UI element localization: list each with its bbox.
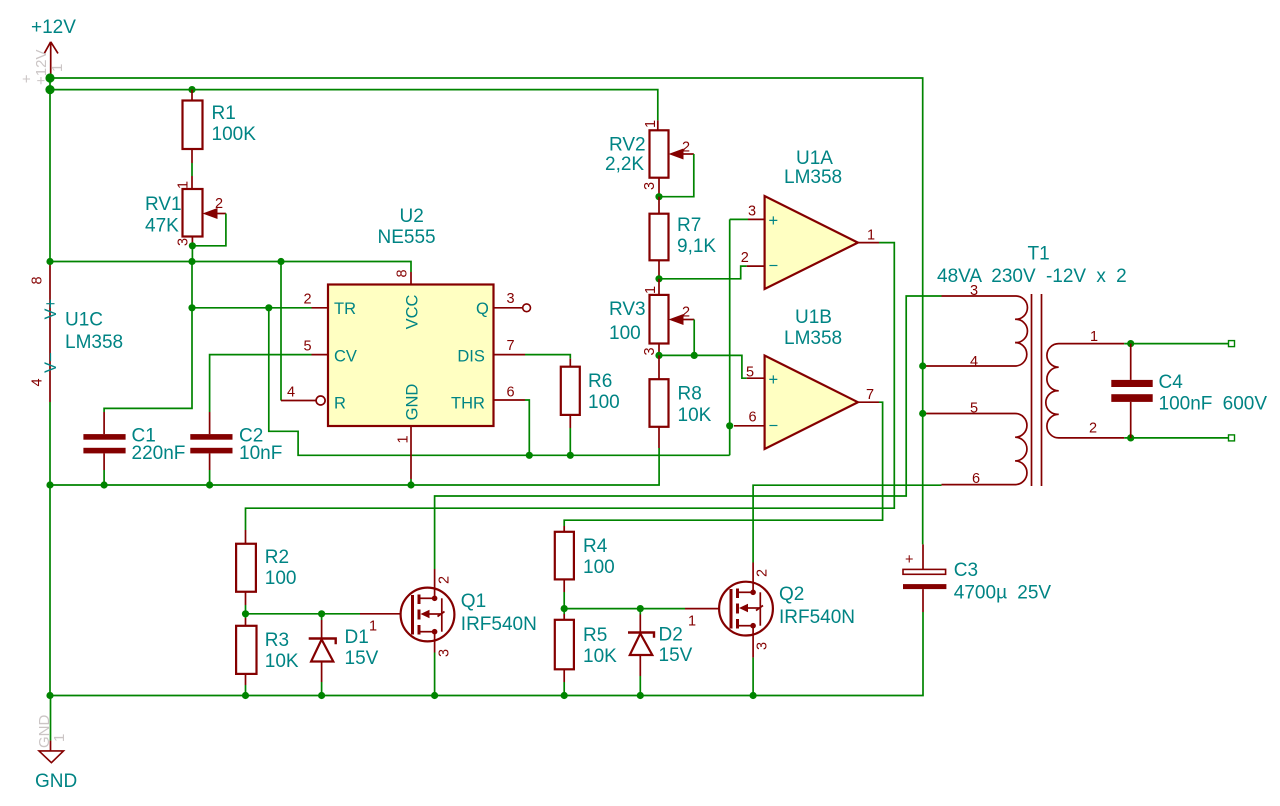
svg-text:4: 4: [30, 378, 46, 386]
junction bottom bus R5: [561, 692, 568, 699]
wire U1A output to Q1 gate resistor R2: [246, 243, 895, 530]
resistor R8: [650, 355, 712, 448]
svg-text:R2: R2: [265, 547, 289, 568]
svg-text:Q2: Q2: [779, 584, 804, 605]
svg-text:R3: R3: [265, 630, 289, 651]
wire VCC bus to U2 pin 8: [50, 262, 411, 273]
pin 8 VCC of U2: [395, 269, 422, 329]
svg-text:100nF 600V: 100nF 600V: [1159, 394, 1268, 415]
pin 2 of U1A: [741, 250, 765, 266]
svg-text:V−: V−: [42, 352, 60, 373]
svg-text:100: 100: [588, 392, 620, 413]
wire R3 top stub: [245, 614, 247, 618]
svg-text:V+: V+: [42, 299, 60, 320]
junction TR wire x192: [188, 304, 195, 311]
svg-text:1: 1: [369, 619, 377, 635]
wire RV3 node to U1B pin 5: [659, 355, 747, 378]
svg-text:U1A: U1A: [796, 148, 833, 169]
wire R6 bottom to bus: [569, 428, 571, 455]
svg-text:6: 6: [507, 385, 515, 401]
junction RV1 pin3: [189, 242, 196, 249]
svg-text:RV3: RV3: [609, 299, 646, 320]
wire T1 pin1 to output terminal: [1124, 343, 1229, 345]
svg-text:10nF: 10nF: [239, 443, 282, 464]
svg-text:9,1K: 9,1K: [677, 236, 716, 257]
wire D1 bottom to bus: [321, 682, 323, 696]
resistor R4: [555, 526, 615, 592]
wire x192 down to C1 top: [104, 308, 192, 412]
svg-text:220nF: 220nF: [132, 443, 186, 464]
wire TR net horizontal: [192, 307, 312, 309]
svg-text:1: 1: [1090, 329, 1098, 345]
svg-text:DIS: DIS: [457, 348, 485, 366]
svg-text:GND: GND: [35, 771, 77, 792]
capacitor C2: [190, 412, 282, 470]
svg-text:100: 100: [583, 557, 615, 578]
wire vertical pin3-pin6 column: [729, 219, 731, 455]
svg-text:100: 100: [609, 323, 641, 344]
svg-text:R6: R6: [588, 371, 612, 392]
pin 4 R of U2 with inversion circle: [281, 385, 346, 413]
wire R2 bottom to gate node: [245, 605, 247, 614]
svg-text:CV: CV: [334, 348, 357, 366]
svg-text:+12V: +12V: [31, 17, 76, 38]
wire R4 bottom to gate node: [563, 592, 565, 609]
junction RV2 pin3: [655, 193, 662, 200]
pin 6 THR of U2: [451, 385, 525, 413]
pin 7 output of U1B: [858, 387, 879, 403]
junction T1 pin5 on +12V column: [919, 410, 926, 417]
svg-text:7: 7: [866, 387, 874, 403]
wire Q1 source to bus: [434, 653, 436, 696]
ground symbol GND: [35, 696, 77, 793]
wire T1 pin5 stub: [923, 413, 926, 415]
wire Q2 gate net: [564, 608, 685, 610]
T1 primary coil A pins 3-4: [926, 283, 1027, 370]
wire R5 bottom to bus: [563, 682, 565, 696]
svg-text:Q1: Q1: [461, 591, 486, 612]
junction R1 top on rail2: [188, 86, 195, 93]
wire U2 GND pin to bus: [410, 479, 412, 485]
svg-text:TR: TR: [334, 300, 356, 318]
svg-text:3: 3: [642, 182, 658, 190]
junction bottom bus left rail: [46, 692, 53, 699]
svg-text:3: 3: [437, 649, 453, 657]
svg-text:RV2: RV2: [609, 135, 646, 156]
svg-text:R7: R7: [677, 215, 701, 236]
junction TR wire x268.8: [265, 304, 272, 311]
junction R2/R3 gate node: [242, 610, 249, 617]
pin 6 of U1B: [734, 410, 765, 426]
svg-text:2: 2: [741, 250, 749, 266]
terminal output node 1: [1229, 341, 1235, 347]
svg-text:+: +: [769, 212, 779, 230]
wire Q2 drain up to T1 pin6: [753, 485, 941, 562]
svg-text:4700µ 25V: 4700µ 25V: [954, 583, 1052, 604]
power flag +12V: [22, 17, 76, 88]
wire RV2 wiper to pin 3: [659, 154, 694, 197]
wire Q1 gate net: [246, 613, 361, 615]
wire R5 top stub: [563, 609, 565, 614]
pin 2 TR of U2: [304, 292, 357, 319]
svg-text:U1C: U1C: [65, 310, 103, 331]
svg-text:8: 8: [30, 276, 46, 284]
pin 5 of U1B: [746, 365, 765, 381]
svg-text:IRF540N: IRF540N: [779, 607, 855, 628]
pin 7 DIS of U2: [457, 338, 525, 366]
pin 3 of U1A: [748, 204, 765, 220]
svg-text:10K: 10K: [265, 651, 299, 672]
svg-text:100K: 100K: [212, 124, 257, 145]
svg-text:+: +: [905, 552, 913, 568]
wire RV1 wiper to pin 3: [192, 214, 226, 246]
svg-text:LM358: LM358: [65, 332, 123, 353]
wire R3 bottom to bus: [245, 685, 247, 696]
svg-text:+: +: [22, 71, 31, 88]
pin 5 CV of U2: [304, 339, 357, 366]
wire D2 bottom to bus: [639, 676, 641, 696]
svg-text:VCC: VCC: [404, 295, 422, 330]
pin 3 Q of U2 with open end circle: [476, 291, 530, 318]
junction bottom bus Q2 source: [750, 692, 757, 699]
svg-text:T1: T1: [1028, 244, 1050, 265]
wire reset pin net x281: [280, 262, 282, 401]
svg-text:1: 1: [176, 181, 192, 189]
svg-text:1: 1: [643, 286, 659, 294]
wire U1B output to Q2 gate resistor R4: [564, 402, 882, 526]
resistor R7: [650, 197, 717, 279]
svg-text:47K: 47K: [145, 216, 179, 237]
svg-text:1: 1: [51, 734, 68, 742]
wire C3 bottom and bottom bus: [50, 612, 923, 696]
junction bus2 U2 GND: [407, 481, 414, 488]
svg-text:5: 5: [304, 339, 312, 355]
capacitor C4: [1111, 344, 1267, 438]
resistor R2: [236, 530, 296, 605]
wire C1 bottom to bus: [103, 470, 105, 485]
svg-text:2: 2: [755, 569, 771, 577]
op-amp U1A: [765, 148, 858, 289]
junction D2 gate node: [637, 605, 644, 612]
junction RV3 pin3: [655, 352, 662, 359]
zener diode D1 15V: [309, 614, 379, 682]
capacitor C1: [83, 412, 185, 470]
svg-text:1: 1: [643, 120, 659, 128]
resistor R6: [561, 359, 620, 428]
junction C4 top: [1127, 340, 1134, 347]
T1 core: [1032, 294, 1042, 486]
svg-text:15V: 15V: [659, 645, 693, 666]
svg-text:+: +: [769, 371, 779, 389]
junction bus2 left rail: [46, 481, 53, 488]
junction VCC bus x281: [277, 258, 284, 265]
wire T1 pin4 stub: [923, 365, 926, 367]
transistor Q1 IRF540N: [360, 569, 537, 657]
wire ground bus2: [50, 448, 659, 485]
svg-text:7: 7: [507, 338, 515, 354]
zener diode D2 15V: [628, 609, 693, 676]
wire R7 bottom to U1A pin 2: [659, 266, 747, 279]
op-amp U1C power pins V+ 8 / V- 4: [30, 262, 124, 403]
resistor R5: [555, 614, 617, 682]
junction at flag rail1: [45, 73, 54, 82]
svg-text:5: 5: [970, 401, 978, 417]
wire U1A pin3 to vertical: [730, 218, 748, 220]
junction bus2 C2: [206, 481, 213, 488]
svg-text:R4: R4: [583, 536, 608, 557]
pin 1 output of U1A: [858, 228, 879, 244]
svg-text:6: 6: [749, 410, 757, 426]
pin 1 GND of U2: [396, 384, 422, 479]
svg-text:R5: R5: [583, 625, 607, 646]
junction D1 gate node: [318, 610, 325, 617]
svg-text:8: 8: [395, 269, 411, 277]
svg-text:R8: R8: [678, 384, 702, 405]
wire Q1 drain up to T1 pin3 column: [435, 296, 942, 569]
junction R7 bottom: [655, 275, 662, 282]
svg-text:3: 3: [970, 283, 978, 299]
T1 secondary coil pins 1-2: [1046, 329, 1124, 438]
transistor Q2 IRF540N: [685, 563, 855, 658]
svg-text:D2: D2: [659, 625, 683, 646]
junction R4/R5 gate node: [561, 605, 568, 612]
resistor R3: [236, 618, 299, 685]
junction THR bus: [526, 452, 533, 459]
svg-text:1: 1: [49, 64, 66, 72]
potentiometer RV1: [145, 176, 226, 246]
wire RV1 down to VCC bus: [191, 246, 193, 262]
svg-text:THR: THR: [451, 395, 485, 413]
junction C4 bottom: [1127, 434, 1134, 441]
svg-text:U1B: U1B: [795, 307, 832, 328]
wire T1 pin2 to output terminal: [1124, 437, 1229, 439]
svg-text:U2: U2: [400, 206, 424, 227]
svg-text:3: 3: [748, 204, 756, 220]
terminal output node 2: [1229, 435, 1235, 441]
svg-text:C4: C4: [1159, 372, 1184, 393]
wire top rail 1 (+12V to T1 column): [50, 78, 923, 544]
wire TR to THR link: [269, 308, 730, 456]
junction RV3 wiper: [691, 352, 698, 359]
svg-text:1: 1: [867, 228, 875, 244]
svg-text:−: −: [769, 257, 779, 275]
wire x192 down to TR: [191, 262, 193, 308]
potentiometer RV3: [609, 279, 694, 356]
junction bottom bus D1: [318, 692, 325, 699]
svg-text:1: 1: [688, 614, 696, 630]
potentiometer RV2: [605, 120, 694, 197]
svg-text:5: 5: [746, 365, 754, 381]
svg-text:GND: GND: [404, 384, 422, 421]
svg-text:2: 2: [437, 576, 453, 584]
junction bottom bus Q1 source: [431, 692, 438, 699]
junction T1 pin4 on +12V column: [919, 362, 926, 369]
svg-text:−: −: [769, 417, 779, 435]
svg-text:Q: Q: [476, 300, 489, 318]
svg-text:2: 2: [682, 305, 690, 321]
svg-text:2: 2: [215, 196, 223, 212]
junction bus2 C1: [101, 481, 108, 488]
T1 primary coil B pins 5-6: [926, 401, 1027, 488]
wire RV3 wiper down: [693, 320, 695, 356]
svg-text:2: 2: [682, 140, 690, 156]
svg-text:4: 4: [287, 385, 295, 401]
IC U2 NE555 body: [328, 206, 494, 426]
junction at flag rail2: [45, 85, 54, 94]
junction VCC bus left rail: [46, 258, 53, 265]
svg-text:2,2K: 2,2K: [605, 154, 644, 175]
junction R6 bus: [567, 452, 574, 459]
svg-text:1: 1: [396, 435, 412, 443]
svg-text:R: R: [334, 395, 346, 413]
svg-text:10K: 10K: [678, 405, 712, 426]
svg-text:D1: D1: [345, 627, 369, 648]
junction bottom bus R3: [242, 692, 249, 699]
svg-text:6: 6: [972, 471, 980, 487]
junction bottom bus D2: [637, 692, 644, 699]
wire left rail upper: [49, 78, 51, 262]
wire THR down to bus: [525, 400, 529, 455]
svg-text:C3: C3: [954, 560, 978, 581]
wire C2 bottom to bus: [209, 470, 211, 485]
svg-text:4: 4: [970, 354, 978, 370]
svg-text:3: 3: [507, 291, 515, 307]
svg-text:48VA 230V -12V x 2: 48VA 230V -12V x 2: [937, 266, 1127, 287]
junction VCC bus x192: [188, 258, 195, 265]
wire DIS to R6 top: [525, 355, 570, 359]
svg-text:2: 2: [304, 292, 312, 308]
wire top rail 2 (+12V to R1 and RV2): [50, 90, 658, 121]
svg-text:LM358: LM358: [784, 328, 842, 349]
svg-text:RV1: RV1: [145, 194, 182, 215]
svg-text:10K: 10K: [583, 646, 617, 667]
resistor R1: [183, 90, 257, 163]
svg-text:15V: 15V: [345, 648, 379, 669]
svg-text:NE555: NE555: [378, 227, 436, 248]
wire left rail lower: [49, 402, 51, 696]
svg-text:IRF540N: IRF540N: [461, 614, 537, 635]
op-amp U1B: [765, 307, 858, 449]
svg-text:LM358: LM358: [784, 167, 842, 188]
wire CV to C2 top: [210, 355, 312, 412]
wire Q2 source to bus: [752, 658, 754, 696]
svg-text:R1: R1: [212, 103, 236, 124]
wire R1 to RV1: [191, 163, 193, 176]
junction U1B pin6: [726, 422, 733, 429]
svg-text:3: 3: [755, 642, 771, 650]
capacitor C3 polarized: [903, 544, 1051, 612]
transformer T1: [937, 244, 1127, 288]
svg-text:100: 100: [265, 568, 297, 589]
svg-text:2: 2: [1089, 421, 1097, 437]
